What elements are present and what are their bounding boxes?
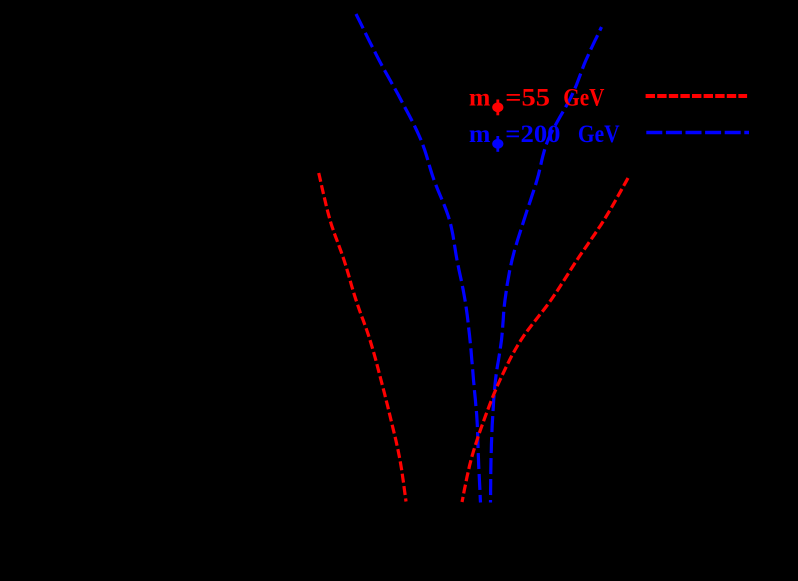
legend entry 2 line sample: blue long dashes [646,131,749,135]
svg-text:=200: =200 [505,121,560,148]
svg-text:GeV: GeV [578,121,620,148]
legend entry 1 line sample: red short dashes [646,94,748,98]
legend entry 1 text: m_phi=55 GeV (red) [469,85,605,112]
svg-text:m: m [469,85,491,112]
svg-text:m: m [469,121,491,148]
curve: red right branch (m_phi=55 GeV) [462,178,628,502]
curve: blue left branch (m_phi=200 GeV) [356,14,481,503]
legend entry 1 phi subscript (red): loop and stem [492,100,503,116]
legend entry 2 phi subscript (blue): loop and stem [492,136,503,152]
svg-text:GeV: GeV [563,85,604,112]
legend entry 2 text: m_phi=200 GeV (blue) [469,121,620,148]
curve: blue right branch (m_phi=200 GeV) [491,27,602,503]
curve: red left branch (m_phi=55 GeV) [319,173,406,502]
svg-text:=55: =55 [505,85,550,112]
